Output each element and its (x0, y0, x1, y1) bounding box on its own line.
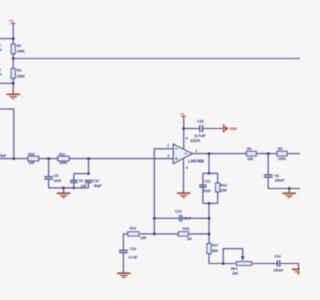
resistor R2 (11, 44, 25, 54)
wire V+ (183, 117, 185, 149)
wire C13 to ground (122, 253, 124, 274)
svg-text:10nF: 10nF (53, 179, 62, 183)
junction input node (12, 157, 15, 160)
junction wiper tap (222, 262, 225, 265)
ground (C6) (283, 190, 296, 198)
wire C9 top stub (73, 174, 75, 181)
ground (C13) (117, 270, 130, 278)
wire C15 to GND port (203, 128, 224, 130)
wire main input (0, 158, 173, 160)
svg-text:100K: 100K (17, 50, 26, 54)
junction R15 right (208, 233, 211, 236)
wire C6 ground stub (288, 189, 290, 194)
resistor R11 (58, 152, 69, 165)
power +5 (left divider) (9, 19, 16, 24)
svg-text:GND: GND (229, 127, 237, 131)
wire box bottom rail (203, 202, 218, 204)
junction box top (208, 172, 211, 175)
resistor R3 (11, 69, 25, 79)
capacitor C15 (194, 120, 207, 138)
junction C12 left (153, 217, 156, 220)
svg-text:10nF: 10nF (203, 189, 212, 193)
junction box bottom (208, 202, 211, 205)
wire C10 vertical (88, 183, 90, 188)
svg-text:100K: 100K (17, 74, 26, 78)
ground (op-amp) (177, 190, 190, 198)
junction V+ node (182, 127, 185, 130)
resistor R9 (277, 147, 287, 161)
svg-text:C5: C5 (54, 174, 58, 178)
junction output node (208, 152, 211, 155)
wire node A to R15 (154, 233, 178, 235)
ground (output, clipped) (292, 265, 300, 274)
power port GND (224, 124, 238, 132)
svg-text:12K: 12K (28, 161, 35, 165)
svg-text:.5uF: .5uF (0, 154, 7, 158)
wire input L top (0, 108, 14, 110)
wire C6 to ground (268, 177, 300, 188)
wire left stub at node bias-top (0, 38, 13, 40)
wire R4 to R9 (256, 153, 277, 155)
junction R10/R11 (47, 157, 50, 160)
junction ground tap (62, 187, 65, 190)
svg-text:C15: C15 (197, 120, 203, 124)
capacitor C6 (264, 174, 285, 183)
wire R9 to edge (287, 153, 300, 155)
wire C11 top stub (202, 173, 204, 185)
svg-text:+5: +5 (9, 19, 14, 24)
svg-text:RP1: RP1 (231, 267, 238, 271)
wire R14 to node A (140, 233, 154, 235)
wire left stub at node bias-bottom (0, 82, 13, 84)
svg-text:C9: C9 (78, 179, 82, 183)
svg-text:C13: C13 (130, 247, 136, 251)
junction bias-top (12, 37, 15, 40)
svg-text:2: 2 (167, 144, 169, 148)
wire C5 to rail (48, 179, 50, 188)
wire R14 left hook (123, 234, 127, 250)
wire C12 right (182, 217, 209, 219)
wire pin2 (154, 148, 173, 150)
svg-text:R11: R11 (59, 152, 65, 156)
wire line B down (208, 203, 210, 243)
svg-text:C6: C6 (274, 174, 278, 178)
junction C12 right (208, 217, 211, 220)
wire R13 bottom stub (217, 192, 219, 204)
resistor R10 (28, 152, 39, 165)
svg-text:30pF: 30pF (94, 184, 103, 188)
ground (below R3) (7, 91, 20, 99)
potentiometer RP1 (223, 249, 251, 276)
wire C14 to ground (280, 264, 299, 270)
wire pot to C14 (252, 263, 278, 265)
svg-text:R9: R9 (278, 147, 282, 151)
wire to C15 (184, 128, 200, 130)
svg-text:220K: 220K (220, 189, 227, 193)
svg-text:C11: C11 (204, 180, 210, 184)
svg-text:100nF: 100nF (273, 269, 284, 273)
junction R14/R15 (153, 233, 156, 236)
junction bias-bottom (12, 82, 15, 85)
svg-text:R17: R17 (212, 244, 218, 248)
wire R13 top stub (217, 173, 219, 183)
svg-text:LMV358: LMV358 (188, 159, 205, 164)
resistor R17 (207, 244, 219, 254)
wire bias long horizontal (13, 58, 300, 60)
junction R4/R9 (267, 152, 270, 155)
wire ground stub (63, 188, 65, 193)
power +5 (op-amp) (180, 112, 187, 117)
svg-text:4: 4 (186, 166, 188, 170)
wire C12 left (154, 217, 179, 219)
wire +5 to R2 (12, 24, 14, 44)
svg-text:R13: R13 (220, 183, 226, 187)
resistor R4 (247, 147, 257, 161)
wire input L vertical (13, 109, 15, 159)
wire C6 branch (267, 154, 269, 175)
svg-text:1M: 1M (187, 237, 192, 241)
svg-text:U1A: U1A (190, 138, 201, 143)
wire C11 bottom stub (202, 187, 204, 203)
junction cap top rail (87, 172, 90, 175)
resistor R15 (178, 227, 191, 241)
svg-text:R2: R2 (17, 44, 21, 48)
svg-text:8: 8 (186, 137, 188, 141)
svg-text:12K: 12K (140, 236, 147, 240)
wire output (192, 153, 246, 155)
svg-text:3: 3 (167, 154, 169, 158)
svg-text:100K: 100K (278, 157, 287, 161)
wire R17 to pot (209, 254, 237, 264)
wire box top rail (203, 172, 218, 174)
wire R15 to line B (188, 233, 209, 235)
wire C9 bottom stub (73, 183, 75, 188)
wire cap top rail (74, 173, 89, 175)
junction C6 ground tap (288, 187, 291, 190)
svg-text:1: 1 (196, 149, 198, 153)
wire C5 branch down (48, 159, 50, 177)
svg-text:C12: C12 (175, 210, 181, 214)
svg-text:100K: 100K (59, 161, 68, 165)
junction C9 tap (73, 187, 76, 190)
wire pin4 down (183, 158, 185, 193)
wire R2 to R3 (12, 54, 14, 69)
resistor R13 (216, 183, 228, 192)
svg-text:C10: C10 (93, 179, 99, 183)
wire feedback vertical (153, 149, 155, 234)
svg-text:10K: 10K (232, 272, 239, 276)
svg-text:R3: R3 (17, 69, 21, 73)
wire C10 branch down (88, 159, 90, 174)
capacitor C5 (44, 174, 62, 183)
capacitor C11 (199, 180, 211, 194)
svg-text:4.7uF: 4.7uF (194, 134, 207, 138)
op-amp U1A (173, 138, 205, 163)
svg-text:R10: R10 (28, 152, 34, 156)
wire cap bottom rail (49, 187, 89, 189)
svg-text:4.7uF: 4.7uF (128, 255, 138, 259)
svg-text:100nF: 100nF (275, 179, 286, 183)
ground (input filter) (57, 190, 70, 198)
junction R11 out (87, 157, 90, 160)
svg-text:12K: 12K (247, 157, 254, 161)
capacitor C10 (85, 179, 103, 188)
wire R3 to ground (12, 78, 14, 94)
wire output to box top (208, 154, 210, 174)
capacitor C13 (119, 247, 138, 259)
svg-text:R15: R15 (183, 227, 189, 231)
svg-text:80K: 80K (212, 249, 219, 253)
junction bias mid node (12, 57, 15, 60)
capacitor C14 (273, 254, 284, 272)
capacitor C12 (175, 210, 192, 222)
resistor R14 (128, 227, 147, 241)
capacitor C9 (70, 179, 87, 188)
